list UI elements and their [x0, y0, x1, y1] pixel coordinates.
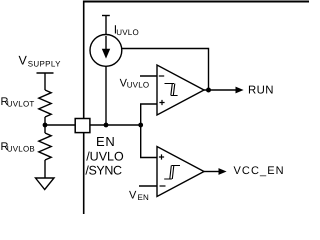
op-amp U1 UVLO comparator: [157, 65, 204, 115]
svg-text:V: V: [129, 190, 137, 202]
wire: IC top rail: [83, 1, 309, 3]
wire: IC left border above EN pin: [83, 1, 85, 119]
svg-text:UVLOT: UVLOT: [7, 100, 35, 109]
wire: IC left border below EN pin: [83, 133, 85, 215]
current source IUVLO: [90, 16, 122, 67]
wire: EN node to U1 plus input: [141, 104, 157, 125]
svg-text:EN: EN: [138, 193, 150, 202]
hysteresis symbol U2 (rising): [164, 166, 180, 180]
wire: U2 output to VCC_EN: [204, 171, 220, 173]
wire: divider node to EN pin: [45, 124, 75, 126]
wire: RUVLOT to node: [44, 117, 46, 126]
svg-text:UVLO: UVLO: [127, 81, 150, 90]
junction: comparator input tee: [138, 123, 143, 128]
resistor RUVLOT: [39, 90, 51, 117]
wire: node to RUVLOB: [44, 125, 46, 133]
svg-text:RUN: RUN: [248, 84, 274, 96]
wire: VUVLO stub to U1 minus input: [140, 75, 157, 77]
pin box EN: [75, 119, 90, 133]
wire: RUVLOB to ground: [44, 160, 46, 178]
wire: current source to EN node: [105, 66, 107, 125]
pin +: plus sign U2: [159, 154, 164, 159]
wire: VEN stub to U2 minus input: [139, 185, 157, 187]
ground: [36, 178, 55, 190]
pin -: minus sign U2: [160, 185, 166, 187]
arrow to RUN: [236, 87, 244, 94]
hysteresis symbol U1 (falling): [165, 84, 178, 96]
wire: VSUPPLY to RUVLOT: [44, 73, 46, 90]
svg-text:/UVLO: /UVLO: [86, 149, 124, 163]
wire: EN node to U2 plus input: [141, 125, 157, 158]
wire: U1 output to RUN: [204, 89, 237, 91]
junction: current source / EN node: [104, 123, 109, 128]
junction: resistor divider node: [43, 123, 48, 128]
svg-text:/SYNC: /SYNC: [85, 163, 122, 177]
pin -: minus sign U1: [159, 75, 164, 77]
resistor RUVLOB: [39, 133, 51, 160]
svg-text:UVLO: UVLO: [116, 28, 139, 37]
wire: EN pin to comparator inputs: [90, 124, 141, 126]
svg-text:EN: EN: [96, 134, 115, 149]
op-amp U2 EN comparator: [157, 147, 204, 197]
arrow to VCC_EN: [219, 168, 227, 175]
svg-text:V: V: [19, 53, 28, 67]
pin +: plus sign U1: [159, 100, 164, 105]
svg-text:VCC_EN: VCC_EN: [234, 165, 285, 177]
svg-text:SUPPLY: SUPPLY: [28, 59, 61, 68]
svg-text:UVLOB: UVLOB: [7, 145, 35, 154]
junction: U1 output node: [206, 88, 211, 93]
wire: current source to RUN node: [122, 49, 209, 91]
node: VSUPPLY terminal bar: [37, 72, 54, 74]
